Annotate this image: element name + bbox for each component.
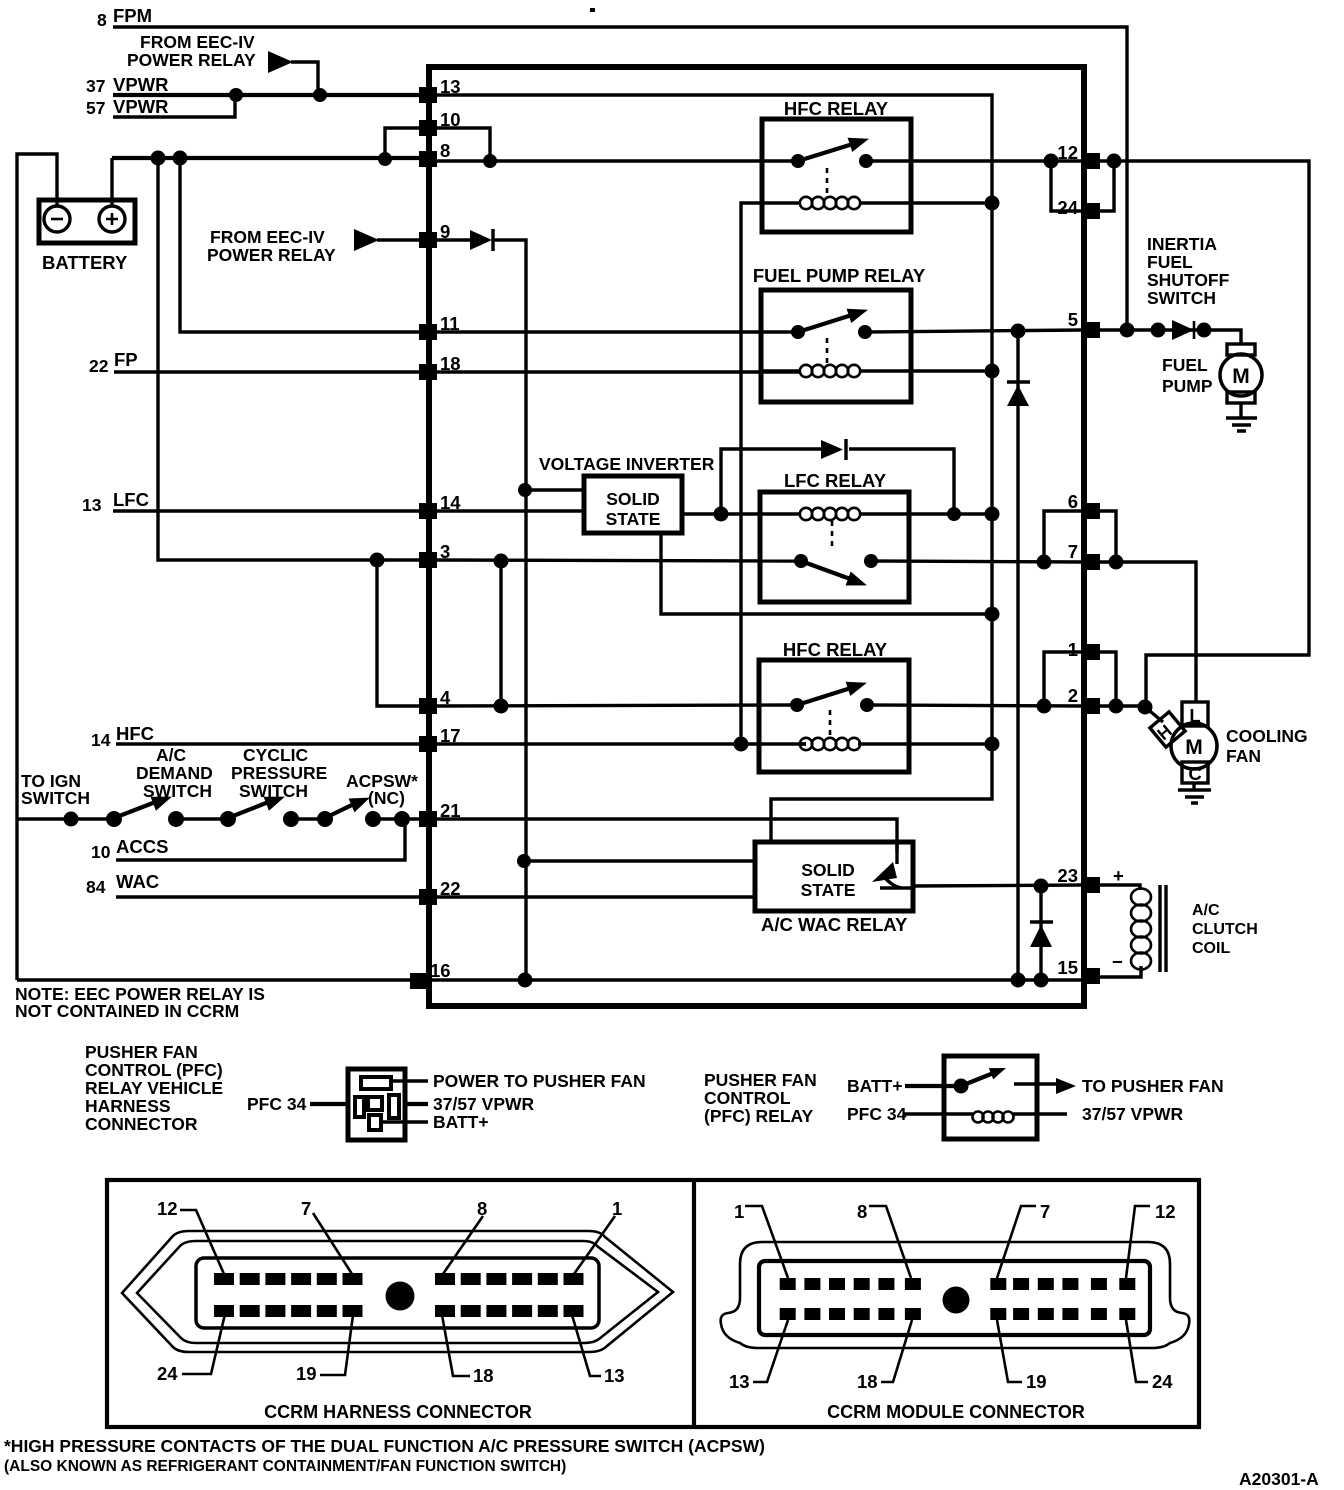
wire ign switch chain segment 1 (17, 817, 114, 820)
svg-text:COIL: COIL (1192, 940, 1230, 957)
svg-text:TO PUSHER FAN: TO PUSHER FAN (1082, 1076, 1224, 1096)
wire bracket pins 12-24 outer (1100, 161, 1114, 211)
junction dot pin2 bracket inner (1037, 699, 1052, 714)
label NOTE (15, 984, 265, 1021)
wire HFC1 contact to pin 12 and right rail to cooling fan high (866, 161, 1309, 707)
svg-text:24: 24 (1057, 197, 1078, 218)
svg-text:18: 18 (473, 1365, 494, 1386)
node 84 WAC label (86, 871, 159, 897)
junction dot VPWR/LFC coil (985, 507, 1000, 522)
wire bracket pins 6-7 outer (1100, 511, 1116, 562)
svg-text:6: 6 (1068, 491, 1078, 512)
junction dot pin12 bracket outer (1107, 154, 1122, 169)
A/C clutch coil L1 (1131, 885, 1166, 972)
battery B1 (39, 200, 135, 273)
junction dot VPWR/57 (229, 88, 243, 102)
junction dot ACCS tap (394, 811, 410, 827)
relay K4 HFC RELAY (lower) (759, 639, 992, 772)
module pin label 13 (729, 1320, 788, 1392)
svg-text:13: 13 (604, 1365, 625, 1386)
wire chain to pin 21 (373, 817, 419, 820)
svg-text:C: C (1188, 763, 1201, 784)
module pin label 12 (1126, 1201, 1176, 1278)
node 10 ACCS label (91, 836, 168, 862)
pin 9 (419, 221, 450, 248)
svg-text:15: 15 (1057, 957, 1078, 978)
svg-text:SWITCH: SWITCH (21, 788, 90, 808)
contact dot A/C demand switch left (106, 811, 122, 827)
divider line (692, 1180, 696, 1427)
svg-text:ACCS: ACCS (116, 836, 168, 857)
svg-text:CLUTCH: CLUTCH (1192, 921, 1258, 938)
junction dot diode 4/ground line (1034, 973, 1049, 988)
pin 17 (419, 725, 461, 752)
svg-text:1: 1 (734, 1201, 744, 1222)
wire pin 7 to cooling fan low (1100, 562, 1196, 703)
svg-text:*HIGH PRESSURE CONTACTS OF THE: *HIGH PRESSURE CONTACTS OF THE DUAL FUNC… (4, 1436, 765, 1456)
pin 1 (1068, 639, 1100, 660)
junction dot bus/pin10 bracket (378, 152, 392, 166)
harness pin label 18 (442, 1315, 494, 1386)
wire battery negative to left rail (17, 154, 57, 980)
pin 11 (419, 313, 460, 340)
wire pin 8 to HFC1 relay contact (437, 159, 798, 162)
svg-text:DEMAND: DEMAND (136, 763, 213, 783)
wire chain segment 3 (291, 817, 325, 820)
svg-text:POWER RELAY: POWER RELAY (127, 50, 256, 70)
svg-text:FUEL: FUEL (1147, 252, 1193, 272)
junction dot diode loop/LFC coil right (947, 507, 961, 521)
harness pin label 7 (301, 1198, 352, 1274)
inertia fuel shutoff switch S1 (1151, 320, 1212, 340)
wire inverter supply (525, 488, 584, 491)
svg-text:BATTERY: BATTERY (42, 252, 128, 273)
wire harness pin to 37/57 VPWR (405, 1102, 428, 1106)
svg-text:14: 14 (91, 730, 111, 750)
relay K1 HFC RELAY (top) (762, 98, 992, 232)
svg-text:7: 7 (301, 1198, 311, 1219)
switch arm A/C demand (114, 801, 158, 818)
label ACPSW* (NC) (346, 771, 418, 808)
wire bracket pins 1-2 inner (1044, 652, 1083, 706)
switch arm cyclic pressure (228, 801, 271, 818)
wire pin 11 to FP relay contact (437, 330, 798, 333)
pin 22 (419, 878, 461, 905)
node 13 LFC label (82, 489, 149, 515)
wire inverter output to LFC coil (682, 512, 760, 515)
wire pin 9 to diode (437, 238, 470, 241)
harness pin label 19 (296, 1315, 353, 1384)
wire arrow to pin 9 (377, 238, 419, 241)
svg-text:CYCLIC: CYCLIC (243, 745, 309, 765)
svg-text:7: 7 (1068, 541, 1078, 562)
diode CR1 (pin 9 VPWR) (470, 229, 493, 251)
junction dot bus/pin3 rail (151, 151, 166, 166)
junction dot pin23/flyback diode (1034, 879, 1049, 894)
A/C WAC relay U3 SOLID STATE (755, 842, 913, 935)
junction dot chain 1 (64, 812, 79, 827)
wire WAC output to pin 23 (913, 885, 1083, 886)
wire FP contact to pin 5 (865, 330, 1083, 332)
pin 4 (419, 687, 451, 714)
label CYCLIC PRESSURE SWITCH (231, 745, 327, 801)
junction dot pin2/right rail (1138, 700, 1153, 715)
svg-text:PFC 34: PFC 34 (247, 1094, 307, 1114)
harness pin label 1 (574, 1198, 622, 1274)
label PUSHER FAN CONTROL (PFC) RELAY VEHICLE HARNESS CONNECTOR (85, 1042, 223, 1134)
pin 15 (1057, 957, 1100, 984)
module pin label 24 (1126, 1320, 1173, 1392)
svg-text:SOLID: SOLID (606, 489, 659, 509)
wire 37 VPWR to pin 13 (113, 93, 419, 97)
wire HFC to pin 17 (116, 742, 419, 745)
pin 16 (410, 960, 451, 989)
wire pin11 rail (battery to pin 11) (180, 158, 419, 332)
svg-text:CONTROL: CONTROL (704, 1088, 791, 1108)
wire WAC relay supply (524, 859, 755, 862)
svg-text:POWER TO PUSHER FAN: POWER TO PUSHER FAN (433, 1071, 646, 1091)
svg-text:(PFC) RELAY: (PFC) RELAY (704, 1106, 814, 1126)
node 22 FP label (89, 349, 138, 376)
label FROM EEC-IV POWER RELAY (top) (127, 32, 256, 70)
wire FPM (pin 8 EEC to fuel pump node) (113, 27, 1127, 330)
svg-text:19: 19 (296, 1363, 317, 1384)
svg-text:STATE: STATE (801, 880, 856, 900)
module connector pins bottom row (780, 1308, 1136, 1320)
wire from arrow to VPWR line (291, 62, 318, 95)
junction dot diode/ground line (1011, 973, 1026, 988)
svg-text:FPM: FPM (113, 5, 152, 26)
contact dot cyclic pressure right (283, 811, 299, 827)
wire harness pin to BATT+ (381, 1120, 428, 1123)
svg-text:18: 18 (857, 1371, 878, 1392)
wire clutch coil to pin 15 (1100, 966, 1141, 977)
svg-text:CONTROL (PFC): CONTROL (PFC) (85, 1060, 223, 1080)
pin 6 (1068, 491, 1100, 519)
junction dot drop/WAC relay (517, 854, 531, 868)
wire PFC 34 to harness connector (310, 1102, 350, 1106)
junction dot HFC coil rail (734, 737, 749, 752)
svg-text:HARNESS: HARNESS (85, 1096, 171, 1116)
node 57 VPWR label (86, 96, 169, 118)
svg-text:A20301-A: A20301-A (1239, 1469, 1319, 1489)
junction dot pin5/flyback diode (1011, 324, 1026, 339)
wire diode to VPWR drop rail (493, 240, 526, 981)
label A/C CLUTCH COIL (1192, 902, 1258, 957)
svg-text:22: 22 (89, 356, 109, 376)
label COOLING FAN (1226, 726, 1308, 766)
node 37 VPWR label (86, 74, 169, 96)
wire pin 17 to HFC coils rail (437, 742, 806, 745)
pin 23 (1057, 865, 1100, 893)
svg-text:BATT+: BATT+ (847, 1076, 903, 1096)
diode CR2 (LFC coil flyback) (821, 439, 846, 460)
junction dot VPWR/HFC1 coil (985, 196, 1000, 211)
flyback diode CR4 (clutch coil) (1030, 886, 1053, 980)
junction dot pin4/inner bracket (494, 699, 509, 714)
svg-text:FROM EEC-IV: FROM EEC-IV (210, 227, 325, 247)
wire chain segment 2 (176, 817, 228, 820)
relay K2 FUEL PUMP RELAY (753, 265, 992, 402)
label A/C DEMAND SWITCH (136, 745, 213, 801)
junction dot drop/inverter (518, 483, 532, 497)
svg-text:HFC RELAY: HFC RELAY (784, 98, 889, 119)
module pin label 7 (997, 1201, 1050, 1278)
wire pin 2 to cooling fan high (1100, 704, 1146, 707)
svg-text:CONNECTOR: CONNECTOR (85, 1114, 198, 1134)
svg-text:PUMP: PUMP (1162, 376, 1213, 396)
arrow to pusher fan (1056, 1078, 1076, 1094)
svg-text:PUSHER FAN: PUSHER FAN (704, 1070, 817, 1090)
wire LFC contact to pin 7 (871, 561, 1083, 562)
svg-text:PRESSURE: PRESSURE (231, 763, 327, 783)
svg-text:12: 12 (157, 1198, 178, 1219)
contact dot A/C demand right (168, 811, 184, 827)
svg-text:FAN: FAN (1226, 746, 1261, 766)
svg-text:1: 1 (1068, 639, 1078, 660)
label INERTIA FUEL SHUTOFF SWITCH (1147, 234, 1230, 308)
ground cooling fan (1178, 783, 1211, 803)
harness pin label 8 (443, 1198, 487, 1274)
svg-text:37/57 VPWR: 37/57 VPWR (1082, 1104, 1184, 1124)
junction dot VPWR/inverter (985, 607, 1000, 622)
svg-text:5: 5 (1068, 309, 1078, 330)
wire LFC to pin 14 (113, 509, 419, 512)
wire pin 14 to voltage inverter (437, 509, 584, 512)
harness pin label 12 (157, 1198, 224, 1274)
junction dot pin3/inner bracket (494, 554, 509, 569)
svg-text:POWER RELAY: POWER RELAY (207, 245, 336, 265)
wire pin 18 to FP relay coil (437, 370, 800, 373)
svg-text:FUEL PUMP RELAY: FUEL PUMP RELAY (753, 265, 926, 286)
PFC relay K5 (944, 1056, 1067, 1139)
svg-text:10: 10 (91, 842, 111, 862)
svg-text:BATT+: BATT+ (433, 1112, 489, 1132)
svg-text:HFC RELAY: HFC RELAY (783, 639, 888, 660)
harness connector pins top row (214, 1273, 584, 1285)
wire FP to pin 18 (114, 370, 419, 373)
junction dot pin10 bracket/pin8 line (483, 154, 497, 168)
label PUSHER FAN CONTROL (PFC) RELAY (704, 1070, 817, 1126)
svg-text:LFC RELAY: LFC RELAY (784, 470, 887, 491)
CCRM harness connector outline (122, 1231, 673, 1352)
junction dot drop/ground line (518, 973, 533, 988)
pin 2 (1068, 685, 1100, 714)
junction dot inverter output (714, 507, 729, 522)
module pin label 8 (857, 1201, 911, 1278)
svg-text:FROM EEC-IV: FROM EEC-IV (140, 32, 255, 52)
wire pin 5 to inertia switch and fuel pump (1100, 330, 1241, 344)
svg-text:SHUTOFF: SHUTOFF (1147, 270, 1230, 290)
wire pin 3 to LFC relay contact (437, 560, 801, 561)
svg-text:LFC: LFC (113, 489, 149, 510)
harness pin label 13 (572, 1315, 625, 1386)
svg-text:SOLID: SOLID (801, 860, 854, 880)
svg-text:PFC 34: PFC 34 (847, 1104, 907, 1124)
svg-text:23: 23 (1057, 865, 1078, 886)
pin 21 (419, 800, 461, 827)
svg-text:PUSHER FAN: PUSHER FAN (85, 1042, 198, 1062)
junction dot pin5/FPM (1120, 323, 1135, 338)
wire PFC 34 into relay coil (903, 1112, 947, 1115)
contact dot cyclic pressure left (220, 811, 236, 827)
junction dot VPWR/HFC2 coil (985, 737, 1000, 752)
wire bracket pins 3-4 inner (499, 561, 502, 706)
label FROM EEC-IV POWER RELAY (pin 9) (207, 227, 336, 265)
pin 8 (419, 140, 450, 167)
svg-text:57: 57 (86, 98, 105, 118)
wire bracket pins 6-7 inner (1044, 511, 1083, 562)
junction dot pin12 bracket inner (1044, 154, 1059, 169)
node 14 HFC label (91, 723, 154, 750)
junction dot VPWR/FP coil (985, 364, 1000, 379)
module pin label 18 (857, 1320, 912, 1392)
relay K3 LFC RELAY (760, 470, 992, 602)
contact dot ACPSW left (317, 811, 333, 827)
svg-text:8: 8 (857, 1201, 867, 1222)
svg-text:24: 24 (157, 1363, 178, 1384)
wire pin 10 bracket left (385, 128, 419, 159)
wire ground return bottom (left rail to pins 16/15) (17, 978, 1083, 981)
svg-text:VOLTAGE INVERTER: VOLTAGE INVERTER (539, 454, 715, 474)
svg-text:13: 13 (82, 495, 102, 515)
svg-text:A/C: A/C (1192, 902, 1220, 919)
wire BATT+ to PFC relay contact (905, 1084, 959, 1088)
CCRM module connector outline (721, 1242, 1190, 1348)
wire pin 21 to WAC transistor (437, 819, 897, 852)
wire bracket pins 3-4 outer (377, 560, 419, 706)
junction dot pin3/outer bracket (370, 553, 385, 568)
svg-text:L: L (1189, 705, 1200, 726)
wire inverter bottom to VPWR rail (661, 533, 992, 614)
svg-text:12: 12 (1155, 1201, 1176, 1222)
svg-text:SWITCH: SWITCH (1147, 288, 1216, 308)
svg-text:A/C WAC RELAY: A/C WAC RELAY (761, 914, 908, 935)
pin 7 (1068, 541, 1100, 570)
pin 13 (419, 76, 461, 103)
svg-text:STATE: STATE (606, 509, 661, 529)
wire pin 13 VPWR rail inside CCRM (437, 95, 992, 842)
svg-text:RELAY VEHICLE: RELAY VEHICLE (85, 1078, 223, 1098)
fuel pump motor M1 (1220, 344, 1262, 403)
svg-text:M: M (1185, 736, 1203, 759)
svg-text:8: 8 (440, 140, 450, 161)
wire ACCS up to pin 21 line (116, 819, 405, 860)
svg-text:A/C: A/C (156, 745, 187, 765)
svg-text:7: 7 (1040, 1201, 1050, 1222)
wire HFC2 contact to pin 2 (867, 705, 1083, 706)
junction dot bus/pin11 rail (173, 151, 188, 166)
bottom connector outer box (107, 1180, 1199, 1427)
pin 24 (1057, 197, 1100, 219)
harness pin label 24 (157, 1314, 225, 1384)
wire harness pin to POWER TO PUSHER FAN (391, 1079, 428, 1082)
module connector pins top row (780, 1278, 1136, 1290)
label FUEL PUMP (1162, 355, 1213, 396)
wire pin 10 bracket right (437, 128, 490, 161)
pin 18 (419, 353, 461, 380)
label TO IGN SWITCH (21, 771, 90, 808)
wire pin 4 to HFC2 relay contact (437, 705, 797, 706)
flyback diode CR3 (fuel pump) (1007, 331, 1030, 980)
pin 10 (419, 109, 461, 136)
wire pin 23 to clutch coil (1100, 885, 1140, 890)
contact dot ACPSW right (365, 811, 381, 827)
cooling fan motor M2 (1150, 702, 1217, 784)
module pin label 1 (734, 1201, 788, 1278)
svg-text:19: 19 (1026, 1371, 1047, 1392)
svg-text:VPWR: VPWR (113, 96, 169, 117)
ground fuel pump (1226, 403, 1257, 431)
svg-text:FP: FP (114, 349, 138, 370)
svg-text:CCRM MODULE CONNECTOR: CCRM MODULE CONNECTOR (827, 1402, 1085, 1422)
node FPM label (97, 5, 152, 30)
svg-text:+: + (1113, 865, 1124, 886)
pin 3 (419, 541, 450, 568)
svg-text:FUEL: FUEL (1162, 355, 1208, 375)
wire to H terminal (1145, 707, 1163, 722)
junction dot pin7 bracket inner (1037, 555, 1052, 570)
svg-text:M: M (1232, 365, 1250, 388)
svg-text:84: 84 (86, 877, 106, 897)
wire pin3 rail (battery to pin 3) (158, 158, 419, 560)
svg-text:HFC: HFC (116, 723, 154, 744)
svg-text:VPWR: VPWR (113, 74, 169, 95)
svg-text:16: 16 (430, 960, 451, 981)
arrow from EEC-IV power relay (top) (268, 51, 293, 73)
svg-text:−: − (1112, 951, 1123, 972)
junction dot pin7 bracket outer (1109, 555, 1124, 570)
svg-text:2: 2 (1068, 685, 1078, 706)
wire HFC coil rail vertical (741, 203, 763, 744)
pin 5 (1068, 309, 1100, 338)
svg-text:CCRM HARNESS CONNECTOR: CCRM HARNESS CONNECTOR (264, 1402, 532, 1422)
svg-text:WAC: WAC (116, 871, 159, 892)
pin 12 (1057, 142, 1100, 169)
svg-text:24: 24 (1152, 1371, 1173, 1392)
voltage inverter U2 SOLID STATE (584, 476, 682, 533)
svg-text:NOT CONTAINED IN CCRM: NOT CONTAINED IN CCRM (15, 1001, 239, 1021)
wire WAC to pin 22 (116, 895, 419, 898)
wire bracket pins 12-24 inner (1051, 161, 1083, 211)
wire battery bus to pin 8 (112, 156, 419, 160)
switch arm ACPSW (325, 803, 356, 818)
wire pin 22 to WAC relay (437, 895, 755, 898)
pin 14 (419, 492, 461, 519)
svg-text:(ALSO KNOWN AS REFRIGERANT CON: (ALSO KNOWN AS REFRIGERANT CONTAINMENT/F… (4, 1458, 566, 1475)
svg-text:37/57 VPWR: 37/57 VPWR (433, 1094, 535, 1114)
wire flyback diode loop over LFC coil (721, 449, 954, 514)
module pin label 19 (997, 1320, 1047, 1392)
junction dot VPWR/relay (313, 88, 327, 102)
harness connector pins bottom row (214, 1305, 584, 1317)
wire battery positive to VPWR bus (110, 158, 113, 207)
svg-text:37: 37 (86, 76, 105, 96)
junction dot pin2 bracket outer (1109, 699, 1124, 714)
svg-text:(NC): (NC) (368, 788, 405, 808)
wire bracket pins 1-2 outer (1100, 652, 1116, 706)
wire 57 VPWR joins 37 VPWR (113, 95, 235, 117)
PFC harness connector J1 (348, 1069, 405, 1140)
svg-text:COOLING: COOLING (1226, 726, 1308, 746)
svg-text:13: 13 (729, 1371, 750, 1392)
svg-text:INERTIA: INERTIA (1147, 234, 1217, 254)
svg-text:8: 8 (97, 10, 107, 30)
scan artifact dot (590, 8, 595, 12)
CCRM module box U1 (429, 67, 1084, 1006)
arrow from EEC-IV power relay (pin 9) (354, 229, 379, 251)
